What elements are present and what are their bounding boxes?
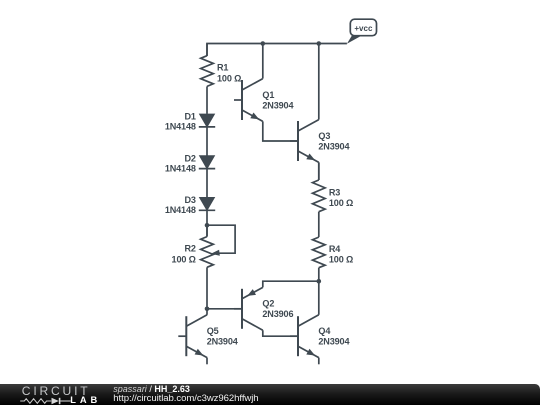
svg-text:1N4148: 1N4148 <box>165 205 196 215</box>
footer bar <box>0 384 540 405</box>
wire R2 wiper loop <box>207 225 235 253</box>
svg-text:100 Ω: 100 Ω <box>329 198 353 208</box>
svg-text:D3: D3 <box>184 195 195 205</box>
svg-text:1N4148: 1N4148 <box>165 122 196 132</box>
svg-text:D2: D2 <box>184 153 195 163</box>
node B junction (R2/Q2 base/Q5) <box>205 307 210 312</box>
schematic byline <box>113 384 190 394</box>
svg-text:D1: D1 <box>184 112 195 122</box>
wire Q2 emitter to node C <box>263 281 319 287</box>
wire Q1 collector to rail <box>262 44 264 79</box>
resistor R4 <box>318 236 320 238</box>
R2 wiper arrow <box>211 250 220 256</box>
wire Q3 collector to rail <box>318 44 320 120</box>
resistor R2 (potentiometer body) <box>206 225 208 236</box>
transistor Q4 <box>297 316 299 356</box>
svg-text:2N3904: 2N3904 <box>207 337 239 347</box>
wire D2 to D3 <box>206 169 208 198</box>
wire D1 to D2 <box>206 127 208 156</box>
transistor Q3 <box>297 121 299 161</box>
node C junction (Q2 emitter/R4) <box>317 279 322 284</box>
wire R4 to Q4 collector <box>318 268 320 315</box>
svg-text:Q1: Q1 <box>262 90 274 100</box>
wire top supply rail <box>207 44 347 57</box>
svg-text:2N3904: 2N3904 <box>318 141 350 151</box>
svg-text:R3: R3 <box>329 188 340 198</box>
svg-text:100 Ω: 100 Ω <box>217 73 241 83</box>
wire Q5 emitter stub <box>206 358 208 365</box>
wire Q1 emitter to Q3 base <box>263 121 298 141</box>
wire R1 to D1 <box>206 86 208 114</box>
resistor R1 <box>206 44 208 56</box>
svg-text:R1: R1 <box>217 63 228 73</box>
svg-text:2N3904: 2N3904 <box>262 100 294 110</box>
transistor Q5 <box>185 316 187 356</box>
wire node B to Q5 collector <box>206 309 208 315</box>
svg-text:100 Ω: 100 Ω <box>329 255 353 265</box>
+vcc supply flag <box>347 36 362 44</box>
wire R2 to node B <box>206 267 208 309</box>
wire D3 to node A <box>206 210 208 236</box>
CircuitLab logo LAB <box>70 395 101 405</box>
wire node B to Q2 base <box>207 308 242 310</box>
node junction rail/Q1 <box>261 41 266 46</box>
wire Q4 emitter stub <box>318 358 320 365</box>
wire R3 to R4 <box>318 212 320 237</box>
svg-text:1N4148: 1N4148 <box>165 163 196 173</box>
wire Q3 emitter to R3 <box>318 162 320 180</box>
svg-text:Q5: Q5 <box>207 326 219 336</box>
svg-text:2N3906: 2N3906 <box>262 309 293 319</box>
svg-text:R4: R4 <box>329 244 341 254</box>
diode D2 <box>200 156 215 169</box>
svg-text:Q3: Q3 <box>318 131 330 141</box>
svg-text:+vcc: +vcc <box>354 24 373 33</box>
diode D1 <box>200 114 215 127</box>
node A junction (D3/R2 wiper) <box>205 223 210 228</box>
svg-text:R2: R2 <box>184 244 195 254</box>
svg-text:Q4: Q4 <box>318 326 331 336</box>
CircuitLab logo CIRCUIT <box>22 384 91 398</box>
wire Q2 collector to Q4 base <box>263 330 298 336</box>
schematic url <box>113 393 258 404</box>
transistor Q1 <box>241 80 243 120</box>
svg-text:100 Ω: 100 Ω <box>172 254 196 264</box>
transistor Q2 (PNP) <box>241 289 243 329</box>
node junction rail/Q3 <box>317 41 322 46</box>
diode D3 <box>200 198 215 211</box>
CircuitLab logo resistor-diode glyph <box>19 397 73 405</box>
svg-text:Q2: Q2 <box>262 299 274 309</box>
svg-text:2N3904: 2N3904 <box>318 337 350 347</box>
resistor R3 <box>318 162 320 180</box>
